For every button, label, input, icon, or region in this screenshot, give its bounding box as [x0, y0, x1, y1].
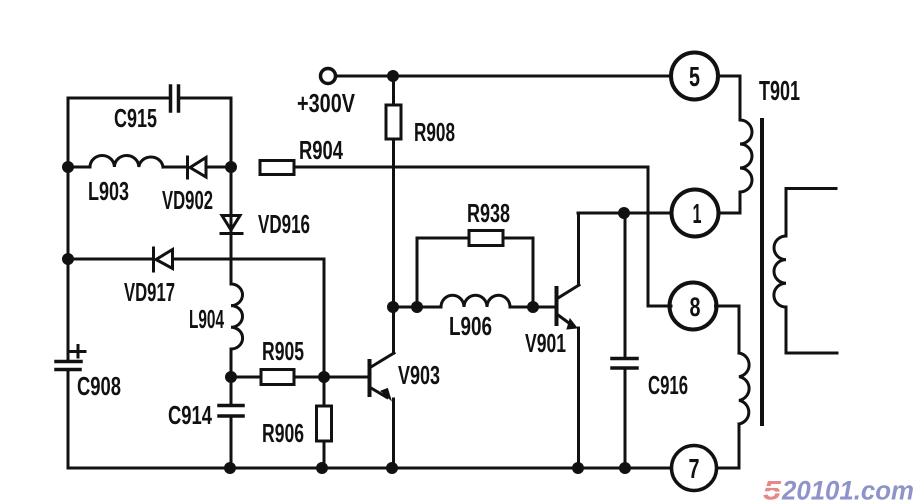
capacitor C914 — [219, 406, 243, 417]
wire x324 vertical — [323, 259, 326, 468]
terminal +300V — [321, 69, 336, 84]
resistor R904 — [260, 161, 294, 175]
wire winding to pin1 — [719, 192, 741, 213]
wire pin5 to winding — [718, 76, 740, 120]
inductor L906 — [441, 295, 510, 307]
svg-text:VD917: VD917 — [124, 277, 175, 307]
svg-text:20101.com: 20101.com — [781, 476, 914, 501]
svg-text:R908: R908 — [414, 117, 455, 147]
wire left vertical x68 — [67, 98, 70, 468]
capacitor C915 — [171, 86, 179, 111]
svg-text:5: 5 — [763, 476, 782, 501]
inductor L903 — [90, 156, 163, 168]
svg-text:1: 1 — [693, 198, 702, 229]
resistor R908 — [392, 76, 395, 307]
wire top rail — [336, 75, 671, 78]
wire VD917 row — [68, 258, 324, 261]
capacitor C916 — [624, 213, 627, 468]
node dot J — [618, 207, 630, 219]
transistor V903 — [368, 361, 372, 395]
svg-text:R904: R904 — [299, 135, 343, 165]
svg-text:VD916: VD916 — [258, 209, 310, 239]
svg-text:L906: L906 — [449, 311, 492, 341]
wire V901 emitter vertical — [577, 328, 580, 468]
T901 core — [760, 120, 764, 424]
node dot E — [318, 371, 330, 383]
resistor R938 loop — [417, 238, 533, 307]
node dot I — [527, 301, 539, 313]
pin 1 terminal T901 — [672, 190, 719, 237]
svg-text:8: 8 — [690, 292, 701, 322]
wire bottom rail — [68, 467, 671, 470]
svg-text:C915: C915 — [114, 103, 157, 133]
svg-text:V901: V901 — [525, 328, 566, 358]
plus sign C908 — [71, 346, 85, 358]
svg-text:+300V: +300V — [297, 88, 356, 118]
diode VD916 — [221, 216, 242, 234]
svg-text:L904: L904 — [189, 304, 224, 334]
node dot K — [224, 462, 236, 474]
wire L903 row — [68, 166, 231, 169]
T901 secondary winding — [786, 189, 837, 354]
diode VD902 — [188, 157, 207, 178]
svg-text:C914: C914 — [168, 400, 212, 430]
inductor L904 — [231, 284, 243, 349]
wire R904 row — [294, 166, 648, 169]
svg-text:C908: C908 — [77, 371, 121, 401]
pin 5 terminal T901 — [671, 53, 718, 100]
svg-text:R906: R906 — [262, 418, 304, 448]
pin 7 terminal T901 — [672, 446, 717, 491]
wire top loop C915 left segment — [68, 97, 231, 100]
node dot N — [572, 462, 584, 474]
diode VD917 — [154, 248, 173, 271]
node dot L — [316, 462, 328, 474]
stripe effect on watermark 5 — [761, 487, 786, 493]
capacitor C908 — [56, 362, 81, 370]
node dot O — [619, 462, 631, 474]
wire pin8 to winding — [716, 306, 740, 353]
pin 8 terminal T901 — [670, 283, 717, 330]
resistor R905 — [261, 370, 294, 385]
T901 primary winding lower — [739, 353, 749, 424]
node dot C — [62, 253, 74, 265]
wire R905 row — [231, 376, 368, 379]
wire winding to pin7 — [718, 424, 740, 468]
svg-text:R905: R905 — [262, 336, 304, 366]
node dot G — [387, 301, 399, 313]
node dot A — [62, 161, 74, 173]
node dot F — [387, 70, 399, 82]
transistor V901 — [555, 288, 559, 324]
wire pin1 row — [578, 212, 672, 215]
wire L906 row — [393, 306, 555, 309]
watermark 520101.com — [761, 476, 914, 501]
svg-text:R938: R938 — [467, 198, 510, 228]
svg-text:VD902: VD902 — [162, 185, 213, 215]
node dot H — [411, 301, 423, 313]
node dot B — [225, 161, 237, 173]
wire right vertical x231 upper — [230, 98, 233, 233]
wire x648 to pin8 — [648, 167, 671, 306]
svg-text:L903: L903 — [88, 176, 129, 206]
node dot D — [225, 371, 237, 383]
resistor R906 — [317, 406, 332, 441]
wire V901 collector vertical — [577, 213, 580, 285]
T901 primary winding upper — [740, 120, 752, 192]
svg-text:C916: C916 — [648, 370, 688, 400]
svg-text:V903: V903 — [398, 360, 440, 390]
wire V903 emitter vertical — [392, 399, 395, 468]
svg-text:7: 7 — [689, 453, 700, 484]
wire V903 collector vertical — [392, 307, 395, 353]
node dot M — [386, 462, 398, 474]
svg-text:T901: T901 — [759, 75, 800, 106]
wire x231 below VD916 — [230, 234, 233, 468]
svg-text:5: 5 — [689, 61, 700, 92]
